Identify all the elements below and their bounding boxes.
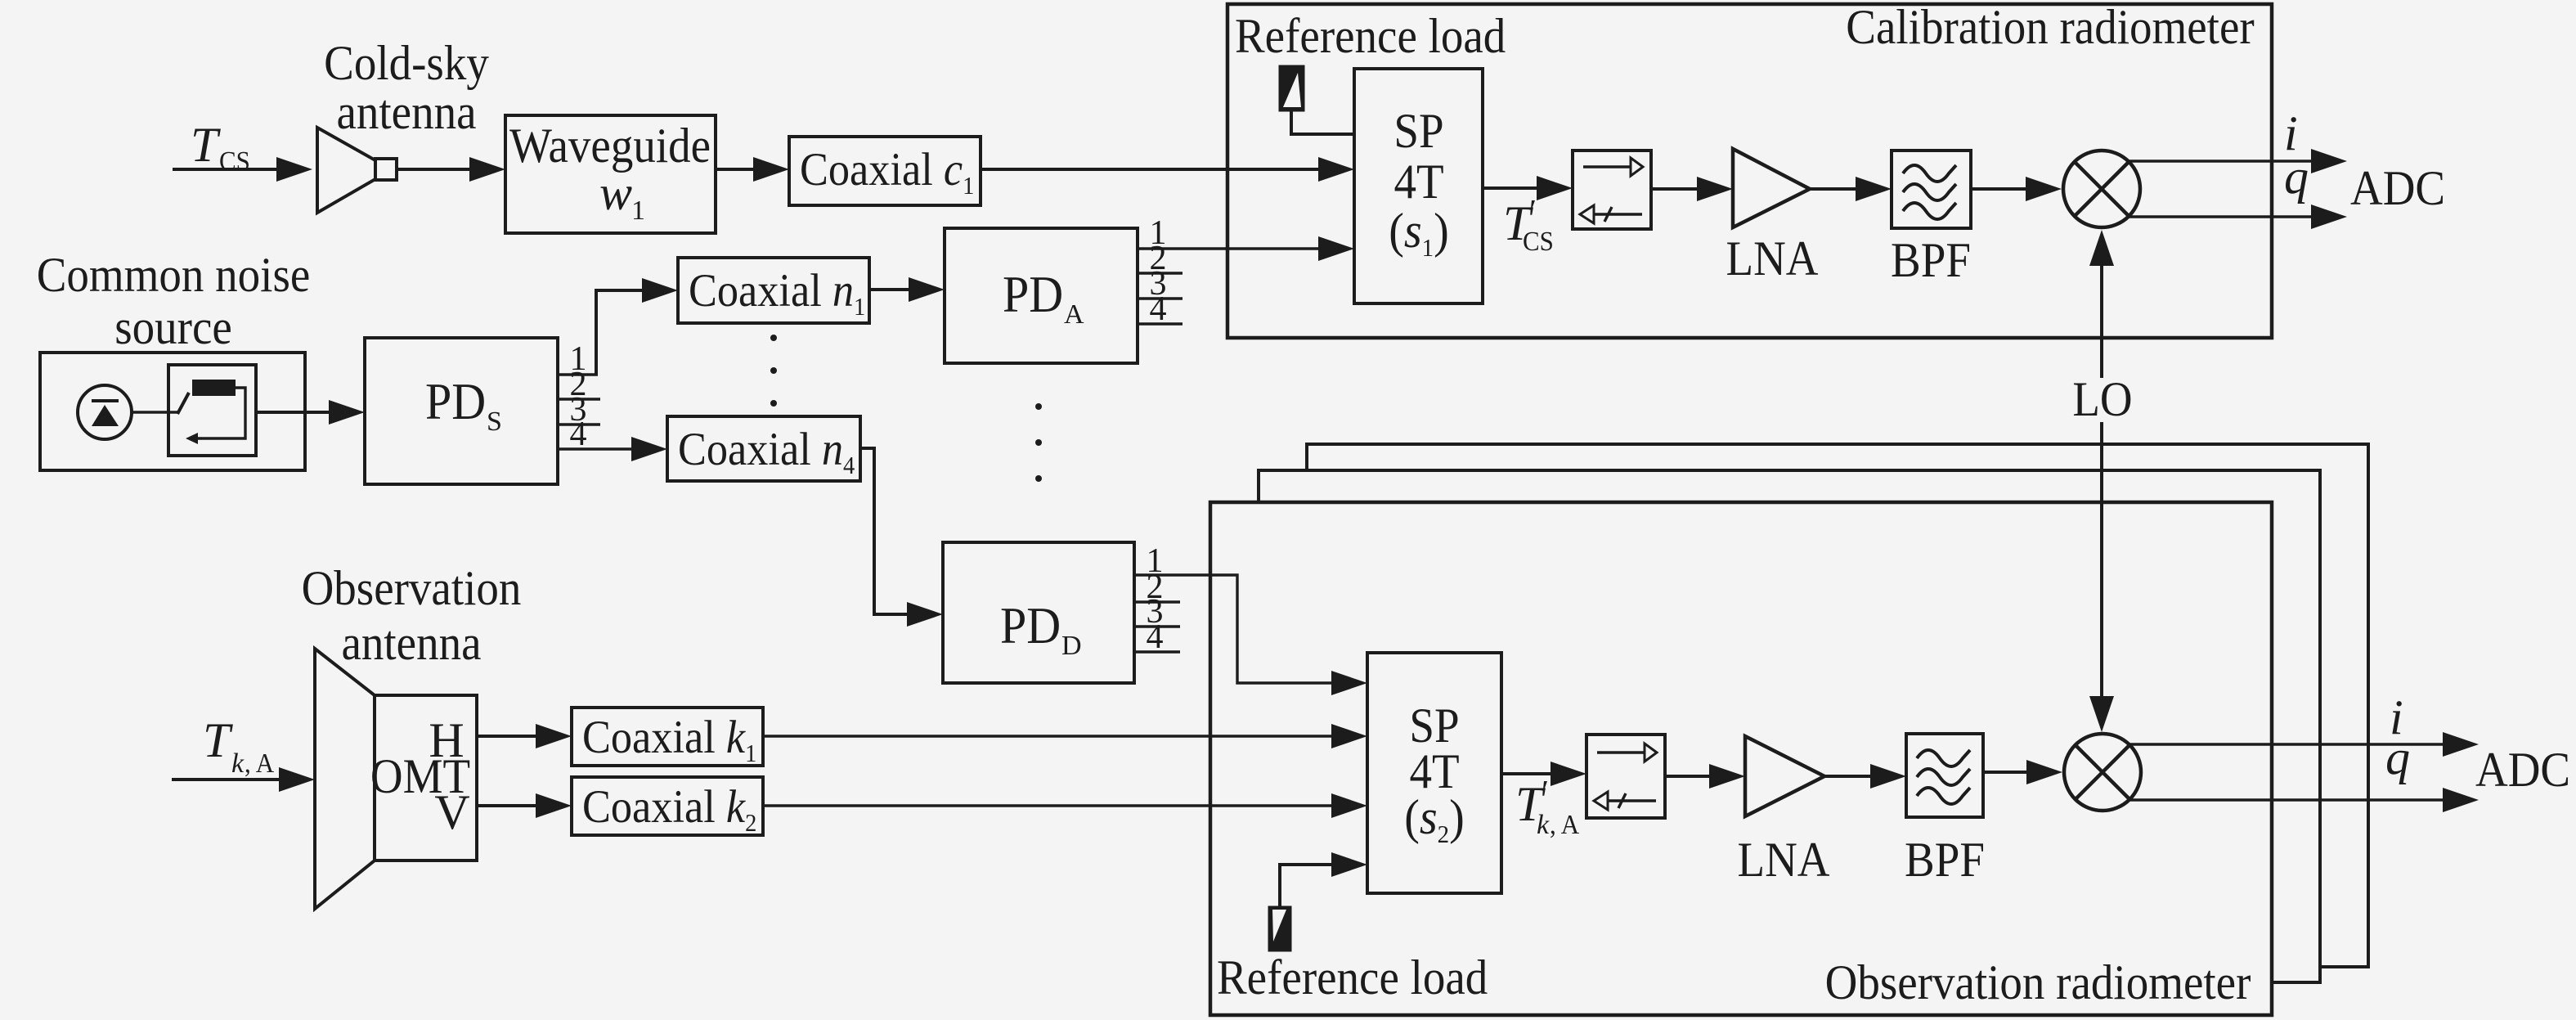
small loop arrow <box>186 433 198 444</box>
svg-text:k: k <box>231 748 245 779</box>
arrow into coaxial k2 <box>536 793 572 818</box>
arrow into waveguide <box>469 157 505 182</box>
LO feed line <box>2100 264 2103 698</box>
wire mixer q output (calibration) <box>2129 215 2313 218</box>
block Coaxial n4 <box>667 416 860 481</box>
arrow into mixer (calibration) <box>2026 177 2062 201</box>
svg-text:T: T <box>191 118 221 172</box>
wire reference load to SP4T s2 input 4 <box>1280 865 1333 907</box>
antenna feed square <box>375 159 397 180</box>
svg-text:CS: CS <box>219 146 250 177</box>
svg-text:, A: , A <box>1550 810 1580 840</box>
arrow into isolator (calibration) <box>1537 176 1573 200</box>
block Waveguide w1 <box>505 115 716 233</box>
label T'_k,A <box>1515 773 1580 840</box>
svg-text:LNA: LNA <box>1738 833 1830 887</box>
noise source outer box <box>40 353 305 470</box>
PD_D pin 4 <box>1134 618 1180 656</box>
noise diode circle <box>78 385 132 439</box>
wire isolator to LNA (observation) <box>1665 775 1711 778</box>
observation radiometer box <box>1210 502 2272 1015</box>
mixer (calibration) <box>2063 151 2140 227</box>
PD_A pin 4 <box>1138 290 1183 328</box>
label Observation antenna <box>302 561 522 670</box>
PD_D pin 2 <box>1134 568 1180 606</box>
block OMT <box>370 695 477 860</box>
wire waveguide to coaxial c1 <box>716 168 755 171</box>
svg-text:BPF: BPF <box>1891 233 1971 287</box>
svg-text:Observation: Observation <box>302 561 522 615</box>
wire coaxial k1 to SP4T s2 input 2 <box>763 735 1333 737</box>
label T_k,A <box>203 713 275 779</box>
mixer (observation) <box>2064 734 2141 811</box>
wire reference load to SP4T s1 <box>1291 110 1354 134</box>
arrow i to ADC (calibration) <box>2311 149 2347 173</box>
arrow LO down into observation mixer <box>2089 696 2114 732</box>
svg-text:LO: LO <box>2072 372 2132 426</box>
PD_A pin 2 <box>1138 240 1183 277</box>
noise diode triangle <box>92 405 119 426</box>
wire coaxial n1 to PD_A <box>869 288 911 291</box>
wire coaxial n4 to PD_D <box>860 448 909 614</box>
svg-text:1: 1 <box>631 195 645 226</box>
svg-text:LNA: LNA <box>1726 231 1819 285</box>
arrow into SP4T s2 input 1 <box>1331 671 1367 695</box>
arrow into mixer (observation) <box>2026 760 2062 784</box>
arrow into LNA (observation) <box>1709 764 1745 789</box>
svg-text:Common noise: Common noise <box>37 248 311 302</box>
wire mixer i output (observation) <box>2129 743 2444 745</box>
arrow LO up into calibration mixer <box>2089 230 2114 266</box>
svg-text:′: ′ <box>1529 192 1537 230</box>
label Cold-sky antenna <box>324 36 489 139</box>
block Coaxial k1 <box>572 708 763 767</box>
svg-text:PD: PD <box>1003 266 1063 323</box>
filter BPF (calibration) <box>1891 151 1971 287</box>
svg-text:k: k <box>1537 810 1550 840</box>
wire coaxial c1 to SP4T s1 input 1 <box>981 168 1320 171</box>
svg-text:Calibration radiometer: Calibration radiometer <box>1846 0 2254 54</box>
svg-text:A: A <box>1064 299 1084 330</box>
svg-text:w: w <box>599 166 632 220</box>
wire PD_D pin1 to SP4T s2 input 1 <box>1134 575 1333 683</box>
wire diode to switch box <box>132 411 177 413</box>
attenuator bar <box>192 380 236 396</box>
arrow into coaxial n4 <box>631 437 667 461</box>
label T'_CS <box>1503 192 1554 257</box>
svg-text:Observation radiometer: Observation radiometer <box>1825 955 2251 1009</box>
svg-text:Coaxial n1: Coaxial n1 <box>689 265 865 321</box>
svg-text:q: q <box>2284 150 2309 204</box>
PD_D pin 3 <box>1134 593 1180 631</box>
svg-text:PD: PD <box>1000 597 1061 654</box>
arrow into PD_D <box>907 602 943 627</box>
arrow into SP4T s2 input 3 <box>1331 793 1367 818</box>
svg-text:ADC: ADC <box>2350 161 2445 215</box>
label T_CS <box>191 118 250 177</box>
svg-text:4: 4 <box>1147 618 1164 656</box>
arrow into SP4T s2 input 4 <box>1331 852 1367 877</box>
svg-text:4: 4 <box>1150 290 1167 328</box>
svg-text:source: source <box>114 300 232 354</box>
svg-text:V: V <box>434 785 469 839</box>
svg-text:(s2): (s2) <box>1404 790 1465 848</box>
arrow into LNA (calibration) <box>1697 177 1733 201</box>
svg-text:Coaxial k2: Coaxial k2 <box>582 781 756 837</box>
wire antenna to waveguide <box>397 168 471 171</box>
antenna horn (cold-sky) <box>317 128 375 213</box>
switch arm <box>177 393 189 414</box>
wire SP4T s1 output <box>1483 186 1538 190</box>
svg-text:Reference load: Reference load <box>1235 9 1506 63</box>
svg-text:T: T <box>203 713 233 767</box>
stacked radiometer box 2 (middle) <box>1259 470 2320 982</box>
arrow into PD_S <box>329 400 365 425</box>
svg-text:Coaxial n4: Coaxial n4 <box>678 424 855 479</box>
arrow into isolator (observation) <box>1551 762 1586 786</box>
modulator inner box <box>168 365 256 456</box>
arrow q to ADC (observation) <box>2443 788 2479 812</box>
arrow into PD_A <box>909 277 945 302</box>
PD_S pin 2 <box>558 366 600 403</box>
filter BPF (observation) <box>1905 734 1985 887</box>
wire mixer q output (observation) <box>2129 798 2444 801</box>
svg-text:4: 4 <box>570 416 587 453</box>
arrow into SP4T s1 input 2 <box>1318 236 1354 261</box>
wire mixer i output (calibration) <box>2129 160 2313 162</box>
wire PD_S pin1 riser to coaxial n1 <box>596 290 644 375</box>
svg-text:D: D <box>1061 631 1082 661</box>
calibration radiometer box <box>1227 4 2272 338</box>
svg-text:CS: CS <box>1523 227 1554 257</box>
arrow into SP4T s1 input 1 <box>1318 157 1354 182</box>
label Common noise source <box>37 248 311 354</box>
arrow into BPF (calibration) <box>1856 177 1892 201</box>
wire coaxial k2 to SP4T s2 input 3 <box>763 804 1333 807</box>
PD_D pin 1 <box>1147 542 1164 580</box>
svg-text:S: S <box>487 407 502 437</box>
stacked radiometer box 3 (back) <box>1307 444 2368 967</box>
svg-text:Coaxial k1: Coaxial k1 <box>582 712 756 767</box>
svg-text:, A: , A <box>245 748 275 779</box>
isolator box (calibration) <box>1573 151 1651 229</box>
dots between PD_A and PD_D <box>1035 403 1042 482</box>
wire BPF to mixer (calibration) <box>1971 187 2027 191</box>
block Coaxial n1 <box>678 258 869 323</box>
PD_S pin 1 <box>558 340 598 378</box>
isolator box (observation) <box>1586 735 1665 818</box>
svg-text:Cold-sky: Cold-sky <box>324 36 489 90</box>
block PD_A <box>945 228 1138 363</box>
arrow into observation antenna <box>279 767 315 792</box>
reference load termination symbol (observation) <box>1269 907 1290 950</box>
wire SP4T s2 output <box>1501 772 1552 775</box>
svg-text:BPF: BPF <box>1905 833 1985 887</box>
svg-text:ADC: ADC <box>2475 743 2570 797</box>
PD_A pin 3 <box>1138 265 1183 303</box>
block SP4T s1 <box>1354 69 1483 303</box>
wire T_CS input <box>173 168 278 171</box>
svg-text:Coaxial c1: Coaxial c1 <box>800 144 974 200</box>
svg-text:antenna: antenna <box>337 85 477 139</box>
block PD_D <box>943 542 1134 683</box>
dots between n1 and n4 <box>770 335 777 407</box>
block Coaxial c1 <box>789 137 981 205</box>
wire LNA to BPF (observation) <box>1824 775 1872 778</box>
svg-text:antenna: antenna <box>342 616 482 670</box>
antenna horn (observation) <box>315 649 375 909</box>
svg-text:(s1): (s1) <box>1389 204 1449 262</box>
arrow into SP4T s2 input 2 <box>1331 724 1367 748</box>
svg-text:q: q <box>2385 730 2410 784</box>
arrow into BPF (observation) <box>1870 764 1906 789</box>
loop wire around attenuator <box>196 388 245 438</box>
svg-text:Waveguide: Waveguide <box>509 119 711 173</box>
amplifier LNA (calibration) <box>1726 149 1819 285</box>
wire LNA to BPF (calibration) <box>1810 187 1857 191</box>
block PD_S <box>365 338 558 484</box>
block Coaxial k2 <box>572 777 763 837</box>
svg-text:Reference load: Reference load <box>1217 950 1488 1004</box>
arrow into coaxial n1 <box>642 278 678 303</box>
PD_A pin 1 <box>1150 214 1167 252</box>
arrow into coaxial c1 <box>753 157 789 182</box>
reference load termination symbol (calibration) <box>1280 66 1304 110</box>
wire isolator to LNA (calibration) <box>1651 187 1699 191</box>
arrow q to ADC (calibration) <box>2311 204 2347 229</box>
wire noise source to PD_S <box>256 411 330 414</box>
svg-text:4T: 4T <box>1393 155 1443 209</box>
wire BPF to mixer (observation) <box>1983 771 2028 774</box>
wire T_k,A input <box>172 778 280 781</box>
amplifier LNA (observation) <box>1738 736 1830 887</box>
svg-text:SP: SP <box>1393 104 1443 158</box>
svg-text:′: ′ <box>1542 773 1549 811</box>
wire OMT V output <box>477 804 537 807</box>
arrow into cold-sky antenna <box>276 157 312 182</box>
wire OMT H output <box>477 735 537 738</box>
svg-text:PD: PD <box>425 373 486 430</box>
noise diode cathode bar <box>92 399 119 402</box>
wire PD_A pin1 to SP4T s1 input 2 <box>1138 247 1320 249</box>
PD_S pin 3 <box>558 391 600 429</box>
PD_S pin 4 <box>558 416 634 453</box>
block SP4T s2 <box>1367 653 1501 893</box>
arrow into coaxial k1 <box>536 724 572 748</box>
arrow i to ADC (observation) <box>2443 732 2479 757</box>
